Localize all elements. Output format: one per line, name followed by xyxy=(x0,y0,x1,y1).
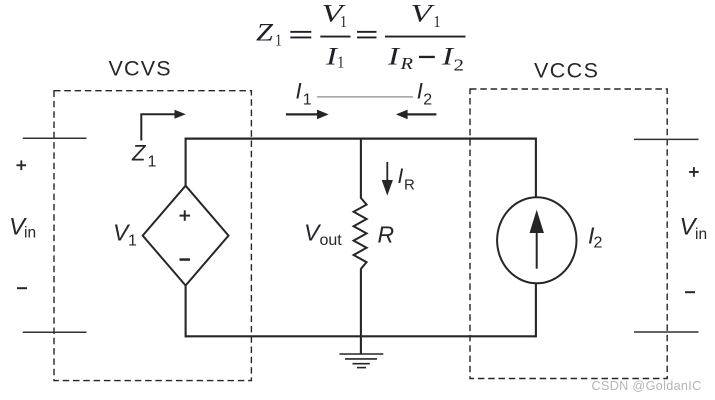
svg-text:R: R xyxy=(378,222,395,248)
svg-text:Z: Z xyxy=(256,19,274,46)
svg-text:I: I xyxy=(296,79,302,104)
svg-text:VCVS: VCVS xyxy=(109,57,172,81)
svg-text:2: 2 xyxy=(594,235,603,252)
svg-text:1: 1 xyxy=(128,232,137,249)
svg-text:I: I xyxy=(398,165,404,188)
svg-text:CSDN @GoldanIC: CSDN @GoldanIC xyxy=(592,379,702,393)
svg-text:I: I xyxy=(417,79,423,104)
svg-text:in: in xyxy=(24,225,36,242)
svg-text:1: 1 xyxy=(275,30,282,49)
svg-text:Z: Z xyxy=(131,141,147,166)
svg-text:out: out xyxy=(320,232,343,249)
svg-text:VCCS: VCCS xyxy=(534,59,599,83)
svg-text:in: in xyxy=(695,226,707,243)
svg-text:1: 1 xyxy=(303,92,312,109)
svg-text:1: 1 xyxy=(337,53,344,72)
svg-text:1: 1 xyxy=(434,12,441,31)
svg-text:2: 2 xyxy=(423,92,432,109)
svg-text:R: R xyxy=(399,54,413,73)
svg-text:R: R xyxy=(404,177,415,194)
svg-text:1: 1 xyxy=(148,154,157,171)
svg-text:1: 1 xyxy=(340,12,347,31)
svg-text:2: 2 xyxy=(454,56,465,75)
